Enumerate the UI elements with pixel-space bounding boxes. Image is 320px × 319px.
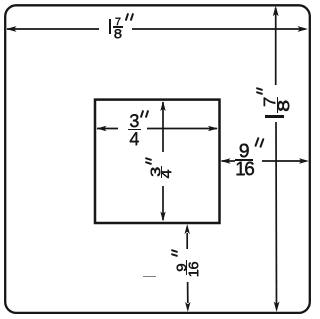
arrowhead up (hole height) xyxy=(160,101,165,111)
dimension line: top width 1 7/8 inch xyxy=(7,28,305,30)
dimension line: hole width 3/4 inch xyxy=(97,128,217,130)
arrowhead down (right dimension) xyxy=(274,302,280,313)
inner square (square hole) xyxy=(95,100,220,223)
stray scan dash near bottom xyxy=(143,276,156,278)
label: 1 7/8 inch (right side, rotated) xyxy=(256,87,289,119)
dimension line: right height 1 7/8 inch xyxy=(275,8,278,309)
arrowhead left (right margin) xyxy=(221,158,231,163)
arrowhead left (hole width) xyxy=(97,126,107,131)
arrowhead up (right dimension) xyxy=(273,6,279,16)
label: 1 7/8 inch (top) xyxy=(106,13,134,38)
arrowhead down (hole height) xyxy=(160,212,165,222)
arrowhead right (hole width) xyxy=(208,126,218,131)
arrowhead right (top dimension) xyxy=(298,26,309,32)
dimension line: right margin 9/16 inch xyxy=(222,160,307,162)
dimension line: bottom margin 9/16 inch xyxy=(186,233,189,303)
label: 3/4 inch (hole height, rotated) xyxy=(145,158,171,178)
arrowhead down (bottom margin) xyxy=(185,302,190,312)
label: 3/4 inch (hole width) xyxy=(128,110,148,145)
label: 9/16 inch (bottom margin, rotated) xyxy=(171,250,198,275)
label: 9/16 inch (right margin) xyxy=(235,137,263,177)
arrowhead up (bottom margin) xyxy=(185,224,190,234)
arrowhead left (top dimension) xyxy=(6,26,17,32)
dimension line: hole height 3/4 inch xyxy=(162,102,164,220)
arrowhead right (right margin) xyxy=(299,158,309,163)
